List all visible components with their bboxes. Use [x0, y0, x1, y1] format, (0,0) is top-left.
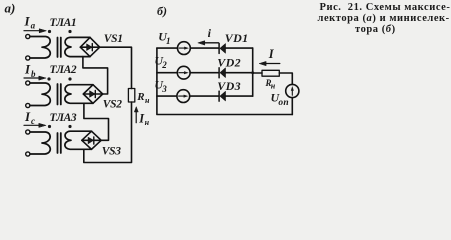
svg-text:I: I [24, 14, 31, 29]
svg-text:ТЛА1: ТЛА1 [50, 17, 77, 29]
svg-text:VD2: VD2 [217, 55, 241, 69]
svg-text:оп: оп [278, 98, 288, 108]
svg-text:a: a [31, 20, 36, 30]
svg-text:Рис. 21. Схемы максисе-: Рис. 21. Схемы максисе- [320, 2, 451, 13]
svg-text:ТЛА3: ТЛА3 [50, 112, 77, 124]
svg-text:c: c [31, 116, 35, 126]
svg-text:VS1: VS1 [104, 33, 123, 45]
svg-text:ТЛА2: ТЛА2 [50, 64, 77, 76]
svg-text:VS2: VS2 [103, 99, 122, 111]
svg-text:I: I [24, 109, 31, 124]
svg-text:б): б) [157, 4, 167, 18]
svg-text:н: н [271, 81, 276, 90]
svg-text:лектора (а) и миниселек-: лектора (а) и миниселек- [318, 13, 450, 24]
svg-text:i: i [208, 26, 212, 40]
svg-text:I: I [24, 61, 31, 76]
svg-text:VS3: VS3 [102, 146, 121, 158]
svg-text:н: н [145, 96, 150, 105]
svg-text:а): а) [5, 1, 16, 16]
svg-text:3: 3 [161, 84, 167, 94]
svg-text:1: 1 [166, 36, 171, 46]
svg-text:тора (б): тора (б) [355, 24, 396, 35]
svg-text:R: R [136, 91, 144, 103]
svg-text:I: I [268, 47, 275, 61]
svg-text:VD3: VD3 [217, 79, 241, 93]
svg-text:b: b [31, 69, 36, 79]
svg-text:2: 2 [161, 60, 167, 70]
svg-text:VD1: VD1 [225, 31, 249, 45]
svg-text:н: н [145, 118, 150, 127]
